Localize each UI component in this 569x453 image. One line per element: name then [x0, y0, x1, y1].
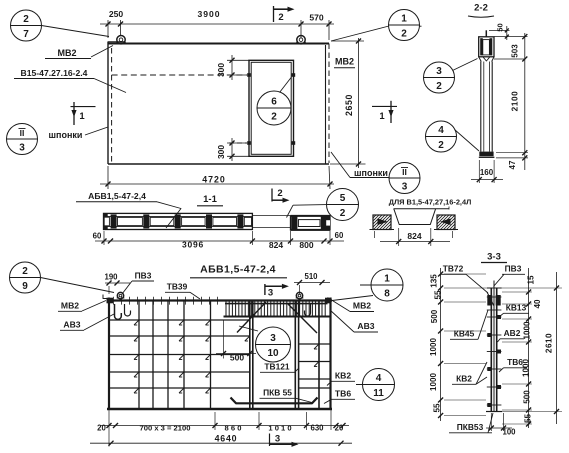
svg-text:МВ2: МВ2: [61, 301, 79, 311]
svg-text:2: 2: [278, 12, 283, 23]
top chord stirrup ticks: [113, 297, 115, 305]
2-2 right dims: [494, 36, 528, 38]
dim 500 cage: [223, 320, 225, 359]
svg-text:II: II: [20, 128, 25, 138]
strip piers hatched: [111, 214, 117, 228]
svg-text:1: 1: [384, 274, 390, 285]
3-3 cross ticks: [487, 296, 502, 298]
svg-text:АВ3: АВ3: [357, 321, 374, 331]
opening key nubs: [247, 73, 251, 77]
svg-text:ТВ6: ТВ6: [335, 389, 351, 399]
svg-text:10: 10: [267, 348, 279, 359]
svg-text:3096: 3096: [182, 240, 204, 250]
svg-text:ТВ39: ТВ39: [167, 282, 188, 292]
svg-text:2-2: 2-2: [474, 3, 488, 14]
2-2 top embed box: [479, 37, 494, 57]
svg-text:3: 3: [275, 434, 280, 445]
svg-text:250: 250: [109, 9, 124, 19]
svg-text:КВ2: КВ2: [456, 374, 472, 384]
svg-text:АВ3: АВ3: [63, 320, 80, 330]
svg-text:ПВ3: ПВ3: [135, 271, 152, 281]
svg-text:135: 135: [430, 274, 439, 288]
2-2 loop stem: [485, 30, 487, 37]
strip end cap left: [104, 213, 108, 229]
panel right hidden edge dashed: [328, 44, 330, 164]
svg-text:1-1: 1-1: [203, 194, 217, 205]
strip right end piece (channel): [291, 216, 331, 230]
svg-text:510: 510: [304, 272, 318, 281]
svg-text:2: 2: [438, 140, 444, 151]
svg-text:ПВ3: ПВ3: [505, 264, 522, 274]
svg-text:300: 300: [216, 145, 226, 159]
svg-text:1 0 1 0: 1 0 1 0: [268, 424, 291, 433]
svg-text:3-3: 3-3: [487, 252, 501, 263]
svg-text:9: 9: [22, 281, 28, 292]
strip void boxes: [118, 217, 143, 225]
cage horizontal wires right part: [299, 343, 331, 345]
callout 1/2 top right: [389, 10, 420, 41]
svg-text:1: 1: [401, 14, 407, 25]
lintel top bar: [225, 303, 328, 305]
svg-text:МВ2: МВ2: [353, 301, 371, 311]
callout 6/2 opening: [257, 91, 291, 125]
cage right edge bar: [329, 298, 331, 411]
lintel stirrup comb: [225, 301, 227, 316]
cage left edge bar: [108, 298, 110, 411]
svg-text:824: 824: [407, 231, 421, 241]
svg-text:1000: 1000: [429, 338, 438, 357]
svg-text:МВ2: МВ2: [335, 57, 354, 67]
svg-text:МВ2: МВ2: [57, 48, 76, 58]
svg-text:4: 4: [376, 373, 382, 384]
weld tick marks: [134, 320, 139, 325]
svg-text:2: 2: [401, 29, 407, 40]
svg-text:ТВ6: ТВ6: [507, 357, 523, 367]
svg-text:50: 50: [496, 23, 505, 31]
svg-text:630: 630: [310, 424, 324, 433]
callout 2/9 cage: [10, 262, 41, 293]
svg-text:2: 2: [277, 188, 282, 199]
svg-text:60: 60: [93, 232, 102, 241]
section mark 2 bottom: [271, 189, 273, 202]
svg-text:2: 2: [340, 208, 346, 219]
svg-text:190: 190: [104, 273, 118, 282]
3-3 side nubs: [497, 315, 501, 319]
svg-text:3: 3: [436, 66, 442, 77]
svg-text:60: 60: [335, 231, 344, 240]
svg-text:11: 11: [373, 388, 384, 399]
svg-text:2: 2: [23, 14, 29, 25]
section mark 1 right: [372, 105, 397, 107]
svg-text:ДЛЯ В1,5-47,27,16-2,4Л: ДЛЯ В1,5-47,27,16-2,4Л: [389, 198, 472, 207]
hidden line through opening upper: [112, 74, 247, 76]
3-3 dim 100: [490, 413, 492, 431]
sill detail right block: [437, 215, 455, 230]
svg-text:3: 3: [19, 143, 25, 154]
svg-text:570: 570: [309, 13, 324, 23]
cage lifting loop right: [296, 292, 302, 298]
callout 4/11 cage: [363, 369, 395, 401]
cage horizontal wires left part: [109, 319, 250, 321]
strip thin lines across door opening: [252, 215, 290, 217]
strip dimension line 60 3096 824 800 60: [95, 240, 344, 242]
2-2 column walls: [480, 62, 482, 152]
svg-text:55: 55: [524, 414, 533, 424]
3-3 right inner dim line: [528, 268, 530, 428]
svg-text:КВ45: КВ45: [454, 329, 475, 339]
svg-text:8: 8: [384, 289, 390, 300]
hairpin PKV55: [231, 398, 318, 404]
svg-text:ТВ121: ТВ121: [264, 362, 289, 372]
svg-text:2610: 2610: [545, 333, 554, 353]
section 1-1 strip left part: [104, 213, 253, 229]
svg-text:В15-47.27.16-2.4: В15-47.27.16-2.4: [21, 68, 88, 78]
cage bottom chord: [107, 408, 332, 410]
3-3 member walls: [490, 288, 492, 412]
section mark 2 top: [273, 6, 275, 22]
svg-text:шпонки: шпонки: [354, 168, 388, 178]
door opening frame: [249, 60, 294, 156]
svg-text:КВ13: КВ13: [506, 303, 527, 313]
panel left hidden edge dashed: [111, 48, 113, 163]
lifting loop right: [297, 36, 305, 44]
2-2 bottom embed: [479, 152, 493, 157]
svg-text:55: 55: [434, 290, 443, 300]
sill detail for L-version: left block: [373, 215, 391, 230]
cage vertical bars: [138, 301, 140, 410]
svg-text:АБВ1,5-47-2,4: АБВ1,5-47-2,4: [200, 264, 276, 276]
svg-text:4720: 4720: [202, 175, 226, 185]
2-2 dim 160: [478, 160, 480, 183]
section mark 3 top: [264, 284, 266, 295]
svg-text:55: 55: [433, 403, 442, 413]
svg-text:АВ2: АВ2: [504, 328, 521, 338]
svg-text:5: 5: [340, 193, 346, 204]
dim 190 cage top-left: [105, 282, 130, 284]
svg-text:2: 2: [22, 266, 28, 277]
hidden line near opening lower: [229, 142, 247, 144]
svg-text:100: 100: [502, 428, 516, 437]
cage bottom dim line 20 700x3 860 1010 630 20: [108, 410, 110, 447]
svg-text:1: 1: [379, 111, 385, 122]
cage total dim 4640: [90, 442, 352, 444]
svg-text:800: 800: [299, 240, 313, 250]
svg-text:500: 500: [430, 309, 439, 323]
dim 4720 below plan: [107, 166, 109, 189]
dim 2650 right of plan: [331, 40, 364, 42]
svg-text:ПКВ 55: ПКВ 55: [263, 388, 292, 398]
callout 3/10 cage: [256, 327, 291, 362]
svg-text:700 x 3 = 2100: 700 x 3 = 2100: [140, 424, 191, 433]
svg-text:47: 47: [508, 160, 517, 169]
callout 3/2: [424, 62, 455, 93]
svg-text:3: 3: [268, 287, 273, 298]
svg-text:шпонки: шпонки: [49, 130, 83, 140]
svg-text:ПКВ53: ПКВ53: [457, 422, 484, 432]
svg-text:15: 15: [527, 275, 536, 285]
svg-text:300: 300: [216, 63, 226, 77]
svg-text:АБВ1,5-47-2,4: АБВ1,5-47-2,4: [88, 191, 146, 201]
section mark 1 left: [71, 106, 96, 108]
svg-text:503: 503: [511, 44, 520, 58]
callout 1/8 cage: [371, 269, 403, 301]
svg-text:II: II: [402, 167, 407, 177]
diagonal bar at opening top-left: [237, 302, 266, 333]
svg-text:4640: 4640: [215, 434, 238, 444]
svg-text:40: 40: [533, 299, 542, 309]
corner embed plate MV2 top-left: [108, 42, 124, 44]
svg-text:500: 500: [523, 390, 532, 404]
svg-text:160: 160: [480, 168, 494, 177]
3-3 member top/bottom: [487, 287, 502, 289]
sill channel profile: [394, 208, 450, 210]
svg-text:20: 20: [335, 424, 344, 433]
panel plan view outline: [108, 42, 329, 44]
svg-text:КВ2: КВ2: [335, 371, 351, 381]
svg-text:8 6 0: 8 6 0: [225, 424, 242, 433]
svg-text:2100: 2100: [511, 91, 520, 112]
hood leader to callout 5/2: [287, 205, 294, 217]
cage corner embeds: [107, 298, 114, 304]
3-3 left dim line: [440, 268, 442, 421]
3-3 top hook blobs: [487, 295, 492, 306]
svg-text:3: 3: [270, 333, 276, 344]
cage top chord: [107, 299, 332, 301]
svg-text:1: 1: [79, 111, 85, 122]
callout 5/2: [327, 189, 359, 221]
callout 2/7 top-left: [11, 10, 42, 41]
svg-text:1000: 1000: [429, 373, 438, 392]
cage opening edge bars: [249, 301, 251, 410]
svg-text:2: 2: [271, 112, 277, 123]
top dimension line 250 3900 570: [100, 23, 334, 25]
dim 510 cage top-right: [294, 282, 330, 284]
section mark 3 bottom: [269, 434, 271, 447]
AV3 hook bars left corner: [115, 304, 122, 319]
svg-text:6: 6: [271, 97, 277, 108]
dim 300 top at opening: [227, 59, 249, 61]
svg-text:ТВ72: ТВ72: [443, 264, 464, 274]
dim 824 of sill detail: [398, 228, 400, 246]
lifting loop left: [117, 36, 125, 44]
svg-text:4: 4: [438, 125, 444, 136]
svg-text:500: 500: [230, 353, 244, 363]
2-2 neck: [479, 57, 482, 62]
svg-text:7: 7: [23, 29, 29, 40]
callout 4/2: [426, 121, 457, 152]
svg-text:20: 20: [97, 424, 106, 433]
AV3 hook right corner: [305, 304, 311, 316]
svg-text:824: 824: [269, 240, 283, 250]
lintel bottom bar: [224, 316, 331, 318]
3-3 outer dim 2610: [556, 272, 558, 424]
svg-text:1000: 1000: [523, 321, 532, 340]
svg-text:3900: 3900: [197, 9, 220, 19]
cage lifting loop left: [117, 292, 123, 298]
svg-text:3: 3: [402, 182, 408, 193]
dim 300 bottom at opening: [227, 142, 247, 144]
diagonal bar at opening top-right: [288, 304, 317, 333]
svg-text:2650: 2650: [344, 94, 354, 116]
svg-text:2: 2: [436, 81, 442, 92]
